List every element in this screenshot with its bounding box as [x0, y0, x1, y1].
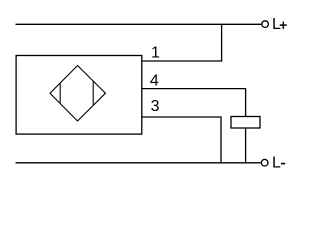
right sensor triangle chord	[92, 82, 94, 105]
wire bottom supply rail L-	[16, 162, 262, 164]
proximity sensor diamond	[50, 66, 106, 122]
terminal L+	[262, 21, 269, 28]
pin 3 wire	[142, 117, 221, 163]
svg-text:1: 1	[151, 44, 160, 61]
label L-	[272, 155, 285, 172]
load resistor	[231, 117, 260, 129]
wire top supply rail L+	[16, 23, 262, 25]
terminal L-	[261, 159, 268, 166]
left sensor triangle chord	[59, 83, 61, 104]
svg-text:4: 4	[150, 73, 159, 90]
label L+	[272, 16, 287, 33]
load to L- wire	[245, 128, 247, 163]
pin 4 wire	[142, 89, 246, 117]
svg-text:3: 3	[151, 98, 160, 115]
sensor body outline	[16, 56, 142, 135]
svg-text:L: L	[272, 16, 281, 33]
svg-text:L: L	[272, 155, 281, 172]
pin 1 wire	[142, 24, 222, 61]
